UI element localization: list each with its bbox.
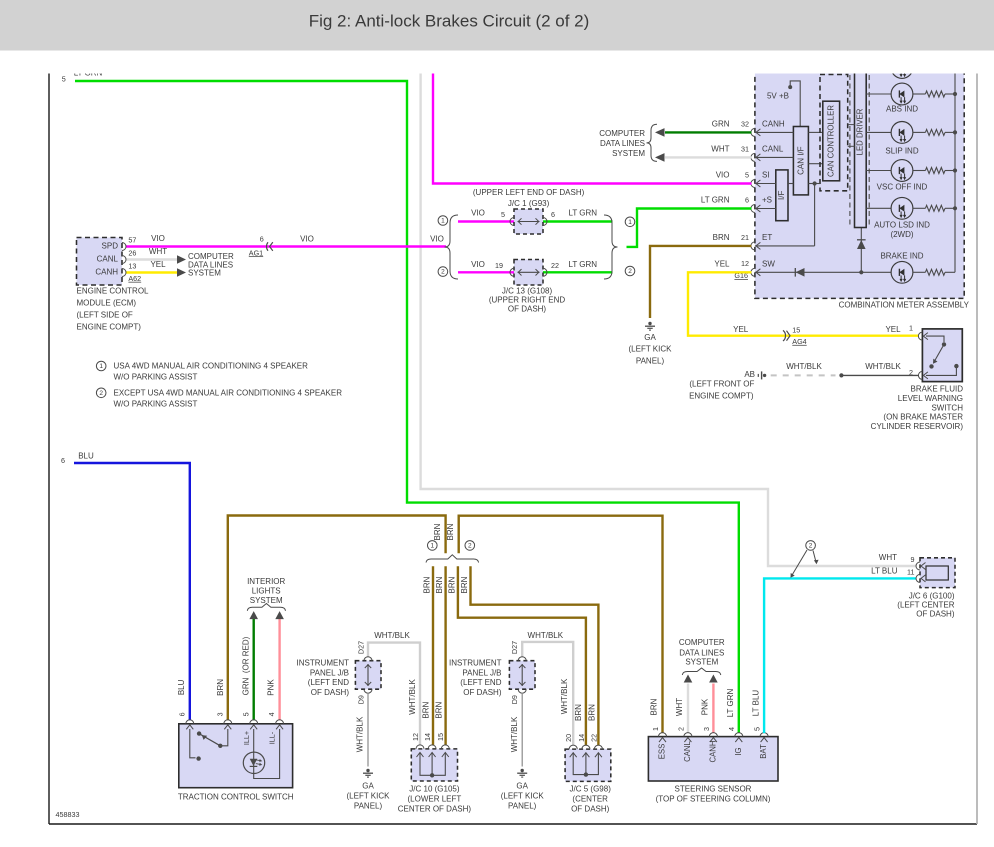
svg-text:MODULE (ECM): MODULE (ECM) (77, 299, 137, 308)
svg-text:COMPUTER: COMPUTER (599, 129, 645, 138)
svg-text:VIO: VIO (300, 235, 314, 244)
svg-text:SW: SW (762, 260, 775, 269)
svg-text:WHT: WHT (711, 145, 729, 154)
svg-text:BRN: BRN (574, 704, 583, 721)
svg-text:GA: GA (362, 782, 374, 791)
svg-text:INTERIOR: INTERIOR (247, 577, 285, 586)
svg-text:SPD: SPD (102, 241, 119, 250)
svg-text:LT GRN: LT GRN (701, 196, 730, 205)
svg-text:BRN: BRN (433, 523, 442, 540)
svg-text:2: 2 (468, 543, 472, 550)
svg-text:32: 32 (741, 119, 749, 128)
svg-text:CANL: CANL (97, 255, 119, 264)
svg-text:Fig 2: Anti-lock Brakes Circui: Fig 2: Anti-lock Brakes Circuit (2 of 2) (309, 11, 590, 30)
svg-text:ESS: ESS (658, 744, 667, 760)
svg-text:D9: D9 (357, 695, 366, 704)
svg-text:ILL+: ILL+ (242, 731, 251, 745)
svg-text:WHT/BLK: WHT/BLK (408, 679, 417, 715)
svg-text:WHT/BLK: WHT/BLK (356, 716, 365, 752)
svg-text:(UPPER LEFT END OF DASH): (UPPER LEFT END OF DASH) (473, 188, 585, 197)
svg-text:BRN: BRN (650, 698, 659, 715)
svg-text:LEVEL WARNING: LEVEL WARNING (898, 394, 963, 403)
svg-text:BRN: BRN (422, 702, 431, 719)
svg-text:GRN (OR RED): GRN (OR RED) (242, 636, 251, 695)
svg-text:2: 2 (676, 727, 685, 731)
svg-text:CANL: CANL (683, 740, 692, 761)
svg-text:BRAKE IND: BRAKE IND (880, 252, 923, 261)
svg-text:VIO: VIO (471, 208, 485, 217)
svg-text:SYSTEM: SYSTEM (612, 149, 645, 158)
svg-text:1: 1 (909, 323, 913, 332)
svg-text:PANEL): PANEL) (354, 802, 383, 811)
svg-text:ET: ET (762, 233, 772, 242)
svg-text:12: 12 (411, 733, 420, 741)
svg-text:(LEFT KICK: (LEFT KICK (347, 792, 391, 801)
svg-text:PANEL J/B: PANEL J/B (310, 668, 349, 677)
svg-text:6: 6 (260, 234, 264, 243)
svg-text:PNK: PNK (701, 698, 710, 715)
svg-text:GA: GA (644, 333, 656, 342)
svg-text:20: 20 (564, 734, 573, 742)
svg-text:BLU: BLU (177, 679, 186, 695)
svg-text:6: 6 (61, 456, 65, 465)
svg-text:GA: GA (516, 782, 528, 791)
svg-text:OF DASH): OF DASH) (508, 304, 547, 313)
svg-text:12: 12 (741, 259, 749, 268)
svg-text:BRN: BRN (460, 576, 469, 593)
svg-text:22: 22 (551, 261, 559, 270)
svg-text:CANL: CANL (762, 145, 784, 154)
svg-text:AG1: AG1 (249, 248, 263, 257)
svg-text:(CENTER: (CENTER (572, 794, 608, 803)
svg-text:AB: AB (744, 370, 755, 379)
svg-text:WHT/BLK: WHT/BLK (560, 678, 569, 714)
svg-text:5: 5 (501, 210, 505, 219)
svg-text:STEERING SENSOR: STEERING SENSOR (675, 784, 752, 793)
svg-text:1: 1 (628, 219, 632, 226)
svg-text:(LEFT END: (LEFT END (460, 678, 501, 687)
svg-text:A62: A62 (128, 274, 141, 283)
svg-text:21: 21 (741, 233, 749, 242)
svg-text:4: 4 (727, 727, 736, 731)
svg-text:14: 14 (423, 733, 432, 741)
svg-text:(LOWER LEFT: (LOWER LEFT (408, 794, 462, 803)
svg-text:(UPPER RIGHT END: (UPPER RIGHT END (489, 295, 566, 304)
svg-text:D27: D27 (510, 641, 519, 654)
svg-text:WHT/BLK: WHT/BLK (528, 631, 564, 640)
svg-text:D9: D9 (510, 695, 519, 704)
svg-text:PANEL): PANEL) (508, 802, 537, 811)
svg-text:PNK: PNK (267, 679, 276, 696)
svg-text:BRN: BRN (216, 679, 225, 696)
svg-text:AG4: AG4 (792, 337, 806, 346)
svg-text:LT GRN: LT GRN (568, 208, 597, 217)
svg-text:(2WD): (2WD) (890, 230, 913, 239)
svg-text:PANEL J/B: PANEL J/B (462, 668, 501, 677)
svg-text:VIO: VIO (430, 235, 444, 244)
svg-text:DATA LINES: DATA LINES (679, 648, 724, 657)
svg-text:INSTRUMENT: INSTRUMENT (297, 658, 350, 667)
svg-text:9: 9 (911, 555, 915, 564)
svg-text:LT GRN: LT GRN (568, 260, 597, 269)
svg-text:COMBINATION METER ASSEMBLY: COMBINATION METER ASSEMBLY (839, 301, 970, 310)
svg-text:BRN: BRN (435, 576, 444, 593)
svg-text:2: 2 (441, 269, 445, 276)
svg-text:CANH: CANH (708, 740, 717, 762)
svg-text:+S: +S (762, 196, 772, 205)
svg-text:1: 1 (441, 218, 445, 225)
svg-text:DATA LINES: DATA LINES (600, 139, 645, 148)
svg-text:INSTRUMENT: INSTRUMENT (449, 658, 502, 667)
svg-text:BRN: BRN (435, 702, 444, 719)
svg-text:USA 4WD MANUAL AIR CONDITIONIN: USA 4WD MANUAL AIR CONDITIONING 4 SPEAKE… (114, 362, 309, 371)
svg-text:(LEFT KICK: (LEFT KICK (501, 792, 545, 801)
svg-text:CAN I/F: CAN I/F (797, 146, 806, 175)
svg-text:AUTO LSD IND: AUTO LSD IND (874, 221, 930, 230)
svg-text:BRAKE FLUID: BRAKE FLUID (911, 384, 964, 393)
svg-text:1: 1 (651, 727, 660, 731)
svg-text:D27: D27 (357, 641, 366, 654)
svg-text:5V +B: 5V +B (767, 91, 789, 100)
svg-text:IG: IG (734, 747, 743, 755)
svg-text:OF DASH): OF DASH) (571, 804, 610, 813)
svg-text:VIO: VIO (471, 260, 485, 269)
svg-text:(LEFT KICK: (LEFT KICK (629, 345, 673, 354)
svg-text:22: 22 (589, 734, 598, 742)
svg-text:J/C 5 (G98): J/C 5 (G98) (570, 784, 612, 793)
svg-text:LT BLU: LT BLU (871, 566, 898, 575)
svg-text:WHT/BLK: WHT/BLK (865, 362, 901, 371)
svg-text:3: 3 (215, 712, 224, 716)
svg-text:31: 31 (741, 144, 749, 153)
svg-text:19: 19 (495, 261, 503, 270)
svg-text:OF DASH): OF DASH) (463, 688, 502, 697)
svg-text:YEL: YEL (150, 260, 166, 269)
svg-text:SYSTEM: SYSTEM (685, 658, 718, 667)
svg-text:3: 3 (702, 727, 711, 731)
svg-text:(LEFT SIDE OF: (LEFT SIDE OF (77, 311, 133, 320)
svg-text:VIO: VIO (151, 234, 165, 243)
svg-text:LED DRIVER: LED DRIVER (856, 108, 865, 155)
svg-text:YEL: YEL (885, 325, 901, 334)
svg-text:WHT: WHT (149, 247, 167, 256)
svg-text:J/C 6 (G100): J/C 6 (G100) (909, 592, 955, 601)
svg-text:WHT: WHT (879, 553, 897, 562)
svg-text:VIO: VIO (716, 171, 730, 180)
svg-text:57: 57 (128, 235, 136, 244)
svg-text:CANH: CANH (95, 268, 118, 277)
svg-text:ILL-: ILL- (267, 731, 276, 744)
svg-text:GRN: GRN (712, 120, 730, 129)
svg-text:15: 15 (792, 325, 800, 334)
svg-text:WHT/BLK: WHT/BLK (510, 716, 519, 752)
svg-text:14: 14 (577, 734, 586, 742)
svg-text:ENGINE CONTROL: ENGINE CONTROL (77, 287, 150, 296)
svg-text:6: 6 (177, 712, 186, 716)
svg-text:SWITCH: SWITCH (931, 403, 963, 412)
svg-text:11: 11 (907, 568, 914, 577)
svg-text:CANH: CANH (762, 119, 785, 128)
svg-text:I/F: I/F (777, 191, 786, 200)
svg-text:13: 13 (128, 262, 136, 271)
svg-text:LT BLU: LT BLU (752, 690, 761, 717)
svg-text:2: 2 (809, 543, 813, 550)
svg-text:458833: 458833 (56, 810, 80, 819)
svg-text:15: 15 (436, 733, 445, 741)
svg-text:BRN: BRN (587, 704, 596, 721)
svg-text:1: 1 (430, 543, 434, 550)
svg-text:(LEFT FRONT OF: (LEFT FRONT OF (689, 380, 754, 389)
svg-text:BLU: BLU (78, 452, 94, 461)
svg-text:BRN: BRN (423, 576, 432, 593)
svg-text:6: 6 (745, 195, 749, 204)
svg-text:2: 2 (99, 390, 103, 397)
svg-text:BAT: BAT (759, 744, 768, 759)
svg-text:YEL: YEL (714, 259, 730, 268)
svg-text:WHT: WHT (675, 698, 684, 716)
svg-text:W/O PARKING ASSIST: W/O PARKING ASSIST (114, 373, 198, 382)
svg-text:5: 5 (241, 712, 250, 716)
svg-text:COMPUTER: COMPUTER (679, 638, 725, 647)
svg-text:J/C 13 (G108): J/C 13 (G108) (502, 286, 553, 295)
svg-text:WHT/BLK: WHT/BLK (786, 362, 822, 371)
svg-text:LT GRN: LT GRN (726, 688, 735, 717)
svg-text:WHT/BLK: WHT/BLK (374, 631, 410, 640)
svg-text:5: 5 (62, 74, 66, 83)
svg-text:ENGINE COMPT): ENGINE COMPT) (77, 323, 142, 332)
svg-text:SI: SI (762, 171, 770, 180)
svg-text:LIGHTS: LIGHTS (252, 587, 281, 596)
svg-text:(LEFT END: (LEFT END (308, 678, 349, 687)
svg-text:5: 5 (745, 170, 749, 179)
svg-text:BRN: BRN (448, 576, 457, 593)
svg-text:(TOP OF STEERING COLUMN): (TOP OF STEERING COLUMN) (656, 794, 771, 803)
svg-text:CAN CONTROLLER: CAN CONTROLLER (827, 105, 836, 177)
svg-text:YEL: YEL (733, 325, 749, 334)
svg-text:PANEL): PANEL) (636, 357, 665, 366)
svg-text:4: 4 (267, 712, 276, 716)
svg-text:SYSTEM: SYSTEM (188, 269, 221, 278)
svg-text:SLIP IND: SLIP IND (885, 146, 918, 155)
svg-text:ABS IND: ABS IND (886, 105, 918, 114)
svg-text:BRN: BRN (713, 233, 730, 242)
svg-text:CYLINDER RESERVOIR): CYLINDER RESERVOIR) (871, 422, 964, 431)
svg-text:J/C 10 (G105): J/C 10 (G105) (409, 784, 460, 793)
svg-text:5: 5 (753, 727, 762, 731)
svg-text:(LEFT CENTER: (LEFT CENTER (897, 600, 954, 609)
svg-text:VSC OFF IND: VSC OFF IND (877, 182, 928, 191)
svg-text:BRN: BRN (446, 523, 455, 540)
svg-text:OF DASH): OF DASH) (311, 688, 350, 697)
svg-text:26: 26 (128, 249, 136, 258)
svg-text:ENGINE COMPT): ENGINE COMPT) (689, 391, 754, 400)
svg-text:6: 6 (551, 210, 555, 219)
svg-text:1: 1 (99, 363, 103, 370)
svg-text:W/O PARKING ASSIST: W/O PARKING ASSIST (114, 399, 198, 408)
svg-text:TRACTION CONTROL SWITCH: TRACTION CONTROL SWITCH (178, 793, 294, 802)
svg-text:CENTER OF DASH): CENTER OF DASH) (398, 804, 472, 813)
svg-text:2: 2 (628, 268, 632, 275)
svg-text:(ON BRAKE MASTER: (ON BRAKE MASTER (883, 413, 963, 422)
svg-text:EXCEPT USA 4WD MANUAL AIR COND: EXCEPT USA 4WD MANUAL AIR CONDITIONING 4… (114, 388, 343, 397)
svg-text:J/C 1 (G93): J/C 1 (G93) (508, 199, 550, 208)
svg-text:OF DASH): OF DASH) (916, 609, 955, 618)
